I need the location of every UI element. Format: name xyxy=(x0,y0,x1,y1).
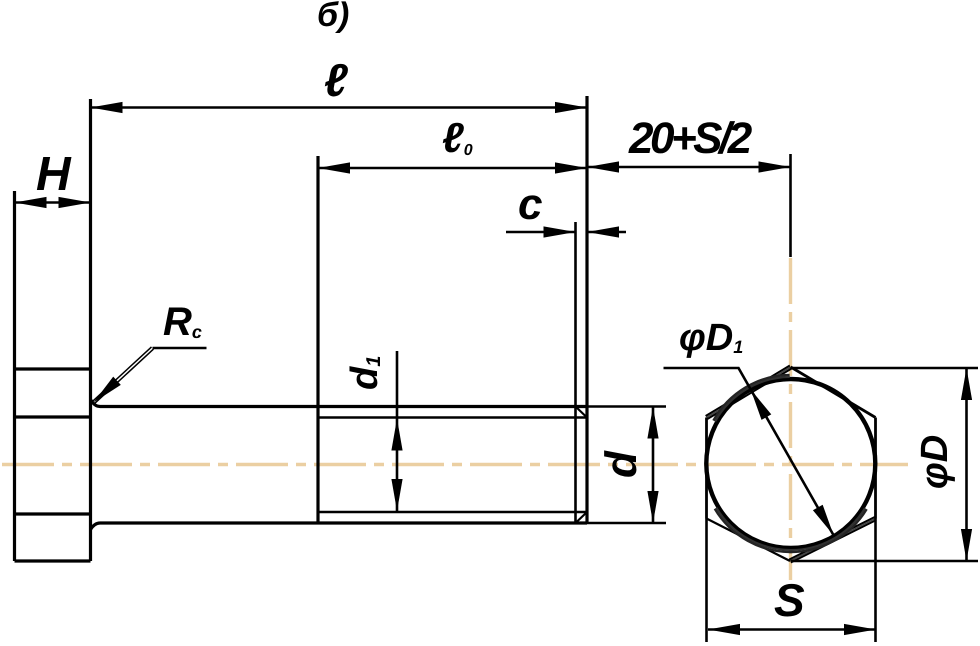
thread minor diameter top line xyxy=(318,416,586,419)
dimension H xyxy=(15,148,91,208)
svg-text:20+S/2: 20+S/2 xyxy=(628,114,753,163)
leader Rc (under-head fillet radius) xyxy=(90,300,207,407)
svg-text:d: d xyxy=(597,450,646,478)
centerline vertical (hex head axis) xyxy=(789,258,792,580)
hexagon top-left edge (sketchy double stroke) xyxy=(706,366,790,417)
hexagon left flat xyxy=(705,418,708,519)
shank top line with under-head fillet xyxy=(91,400,588,407)
svg-text:φD: φD xyxy=(914,435,956,489)
svg-text:φD1: φD1 xyxy=(679,317,743,359)
head left edge + H extension line xyxy=(13,191,16,561)
dimension d (shank diameter) xyxy=(597,407,659,524)
chamfer diagonal top xyxy=(576,407,588,418)
dimension S (across flats) xyxy=(708,574,876,635)
dimension c (chamfer) xyxy=(506,180,626,238)
dimension 20+S/2 xyxy=(587,114,791,257)
head top edge xyxy=(15,367,91,370)
thread minor diameter bottom line xyxy=(318,511,586,514)
end face vertical + extension up xyxy=(585,96,588,523)
chamfer diagonal bottom xyxy=(576,512,588,523)
bottom extension line xyxy=(791,560,978,563)
chamfer crescent arcs (sketchy) xyxy=(669,342,912,585)
hexagon bottom-left edge xyxy=(707,519,791,562)
dimension phi D1 (washer face dia) with leader xyxy=(664,317,839,538)
hex head end view: hexagon xyxy=(669,342,912,642)
head bottom edge xyxy=(15,559,91,562)
thread start boundary line xyxy=(316,156,319,523)
bolt shank outline xyxy=(91,96,667,530)
svg-text:Rc: Rc xyxy=(163,300,202,344)
extension line for 20+S/2 right end xyxy=(789,154,792,257)
dimension l0 xyxy=(318,114,587,174)
head facet line lower xyxy=(15,512,91,515)
head right edge + l/H extension line xyxy=(89,99,92,561)
d extension line top (shank top extended) xyxy=(587,405,666,408)
chamfer start vertical at tip xyxy=(574,222,577,523)
hexagon right flat xyxy=(874,418,877,519)
svg-text:ℓ0: ℓ0 xyxy=(442,114,473,161)
inscribed chamfer circle xyxy=(706,379,875,548)
shank bottom line with under-head fillet xyxy=(91,523,588,530)
d extension line bottom (shank bottom extended) xyxy=(587,522,666,525)
svg-text:c: c xyxy=(518,180,542,229)
dimension d1 (thread minor diameter) xyxy=(344,351,403,512)
right flat extension down (S ext) xyxy=(874,519,877,643)
svg-text:S: S xyxy=(774,574,805,626)
bolt head side view xyxy=(15,99,91,561)
top extension line xyxy=(793,367,978,370)
dimension l xyxy=(91,54,588,113)
hexagon bottom-right edge (sketchy double stroke) xyxy=(789,517,875,560)
svg-text:d1: d1 xyxy=(344,356,386,390)
svg-text:H: H xyxy=(36,148,72,201)
head facet line upper xyxy=(15,415,91,418)
centerline horizontal (bolt axis) xyxy=(2,463,908,466)
dimension phi D (across corners) xyxy=(791,368,978,561)
svg-text:б): б) xyxy=(317,0,349,34)
left flat extension down (S ext) xyxy=(705,519,708,643)
svg-text:ℓ: ℓ xyxy=(324,54,348,106)
hexagon top-right edge xyxy=(791,367,876,418)
